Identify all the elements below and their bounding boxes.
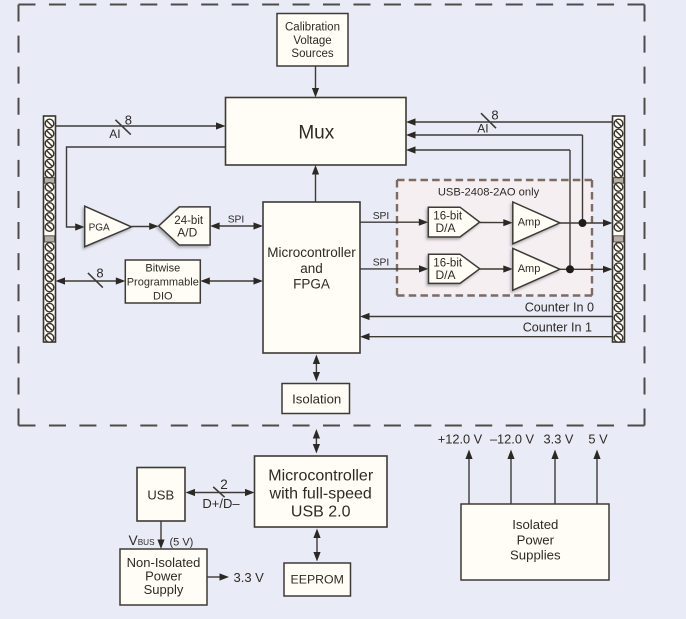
microcontroller and FPGA box [263,202,360,353]
svg-text:Counter In 1: Counter In 1 [523,321,592,335]
svg-text:PGA: PGA [89,222,110,233]
double arrow microcontroller to isolation [313,355,320,382]
counter in 1 wire [360,321,613,341]
svg-text:3.3 V: 3.3 V [544,431,574,446]
VBUS label [129,533,194,549]
svg-text:Isolated: Isolated [512,517,558,532]
24-bit A/D converter [159,207,210,245]
svg-text:2: 2 [220,477,228,492]
wire AI bus left to mux [56,112,226,140]
svg-text:+12.0 V: +12.0 V [438,431,483,446]
svg-text:AI: AI [477,122,488,136]
wire microcontroller to mux [312,165,319,202]
mux box [226,98,407,166]
svg-text:Calibration: Calibration [285,22,340,34]
junction dot 2 [566,265,574,273]
svg-text:Sources: Sources [291,48,333,60]
svg-text:with full-speed: with full-speed [269,486,372,503]
svg-text:Power: Power [517,532,555,547]
svg-text:Microcontroller: Microcontroller [267,245,356,260]
svg-text:8: 8 [125,112,132,127]
svg-text:3.3 V: 3.3 V [234,570,265,585]
svg-text:A/D: A/D [177,226,197,240]
svg-text:Amp: Amp [518,216,541,228]
feedback wire Amp1 to mux [406,131,583,223]
feedback wire Amp2 to mux [406,146,570,269]
3.3V output wire [207,570,264,585]
isolated power supplies box [461,504,609,580]
svg-text:Supply: Supply [144,582,184,597]
svg-text:USB-2408-2AO only: USB-2408-2AO only [438,187,540,199]
power rail –12.0 V [490,431,535,504]
svg-text:SPI: SPI [373,211,390,222]
counter in 0 wire [360,300,613,320]
power rail 5 V [588,431,608,504]
svg-text:Counter In 0: Counter In 0 [525,300,594,314]
USB connector box [137,468,185,522]
svg-text:Supplies: Supplies [510,548,561,563]
isolation box [282,384,350,414]
outer isolation boundary (dashed) [19,5,645,426]
SPI bus to DAC 2 [360,258,429,273]
svg-text:and: and [300,261,323,276]
junction dot 1 [579,219,587,227]
svg-text:D/A: D/A [435,268,455,282]
svg-text:8: 8 [96,266,103,281]
wire Amp1 to right terminal [560,219,613,226]
svg-text:USB: USB [147,487,174,502]
svg-text:AI: AI [109,127,120,141]
double arrow USB micro to EEPROM [313,529,320,562]
wire mux output to PGA [67,147,226,231]
svg-text:8: 8 [491,107,498,122]
wire DAC2 to Amp2 [480,265,513,272]
svg-text:–12.0 V: –12.0 V [490,431,535,446]
svg-text:SPI: SPI [373,258,390,269]
svg-text:SPI: SPI [228,215,245,226]
EEPROM box [284,563,351,596]
double arrow isolation to USB microcontroller [313,429,320,454]
DIO bus to microcontroller [200,277,263,284]
calibration voltage sources box [277,14,348,67]
svg-text:DIO: DIO [153,291,173,303]
wire DAC1 to Amp1 [480,219,513,226]
svg-text:Programmable: Programmable [127,277,199,289]
svg-text:Microcontroller: Microcontroller [268,468,374,485]
svg-text:D/A: D/A [435,221,455,235]
svg-text:D+/D–: D+/D– [202,496,240,511]
wire PGA to A/D [132,223,159,230]
non-isolated power supply box [120,549,207,605]
VBUS wire USB to power supply [157,522,164,550]
svg-text:Isolation: Isolation [292,391,341,406]
svg-text:Amp: Amp [518,263,541,275]
DIO bus to left terminal block [56,266,126,288]
Amp 1 amplifier [513,202,560,244]
SPI bus to DAC 1 [360,211,428,226]
left terminal block [44,116,56,342]
microcontroller with full-speed USB box [255,456,388,527]
PGA amplifier [85,206,132,247]
svg-text:FPGA: FPGA [293,276,330,291]
wire AI bus right to mux [406,107,613,135]
svg-text:5 V: 5 V [588,431,608,446]
right terminal block [613,116,625,342]
svg-text:(5 V): (5 V) [170,537,194,549]
wire calibration to mux [312,66,319,98]
bitwise programmable DIO box [125,260,200,303]
svg-text:Bitwise: Bitwise [145,263,180,275]
svg-text:Voltage: Voltage [293,35,331,47]
DAC 2: 16-bit D/A [429,254,480,283]
power rail +12.0 V [438,431,483,504]
Amp 2 amplifier [513,248,560,290]
svg-text:Mux: Mux [298,123,334,144]
USB-2408-2AO only dashed box [397,180,592,296]
svg-text:USB 2.0: USB 2.0 [291,504,351,521]
wire Amp2 to right terminal [560,266,613,273]
svg-text:EEPROM: EEPROM [291,573,344,587]
power rail 3.3 V [544,431,574,504]
DAC 1: 16-bit D/A [428,207,479,237]
SPI bus A/D to microcontroller [210,215,263,230]
USB data bus D+/D- [186,477,255,511]
